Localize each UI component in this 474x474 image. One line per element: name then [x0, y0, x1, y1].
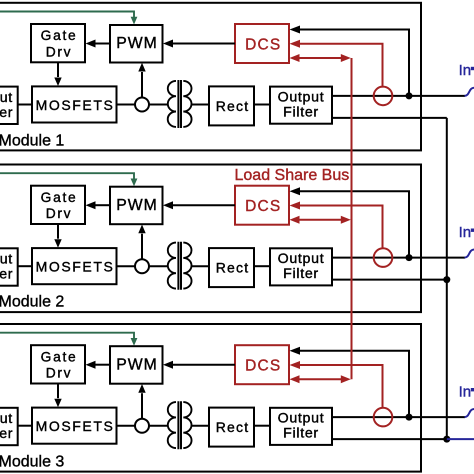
svg-text:Module 3: Module 3	[0, 454, 64, 471]
svg-text:Module 1: Module 1	[0, 133, 64, 150]
svg-text:Load Share Bus: Load Share Bus	[235, 167, 350, 184]
svg-text:Module 2: Module 2	[0, 294, 64, 311]
